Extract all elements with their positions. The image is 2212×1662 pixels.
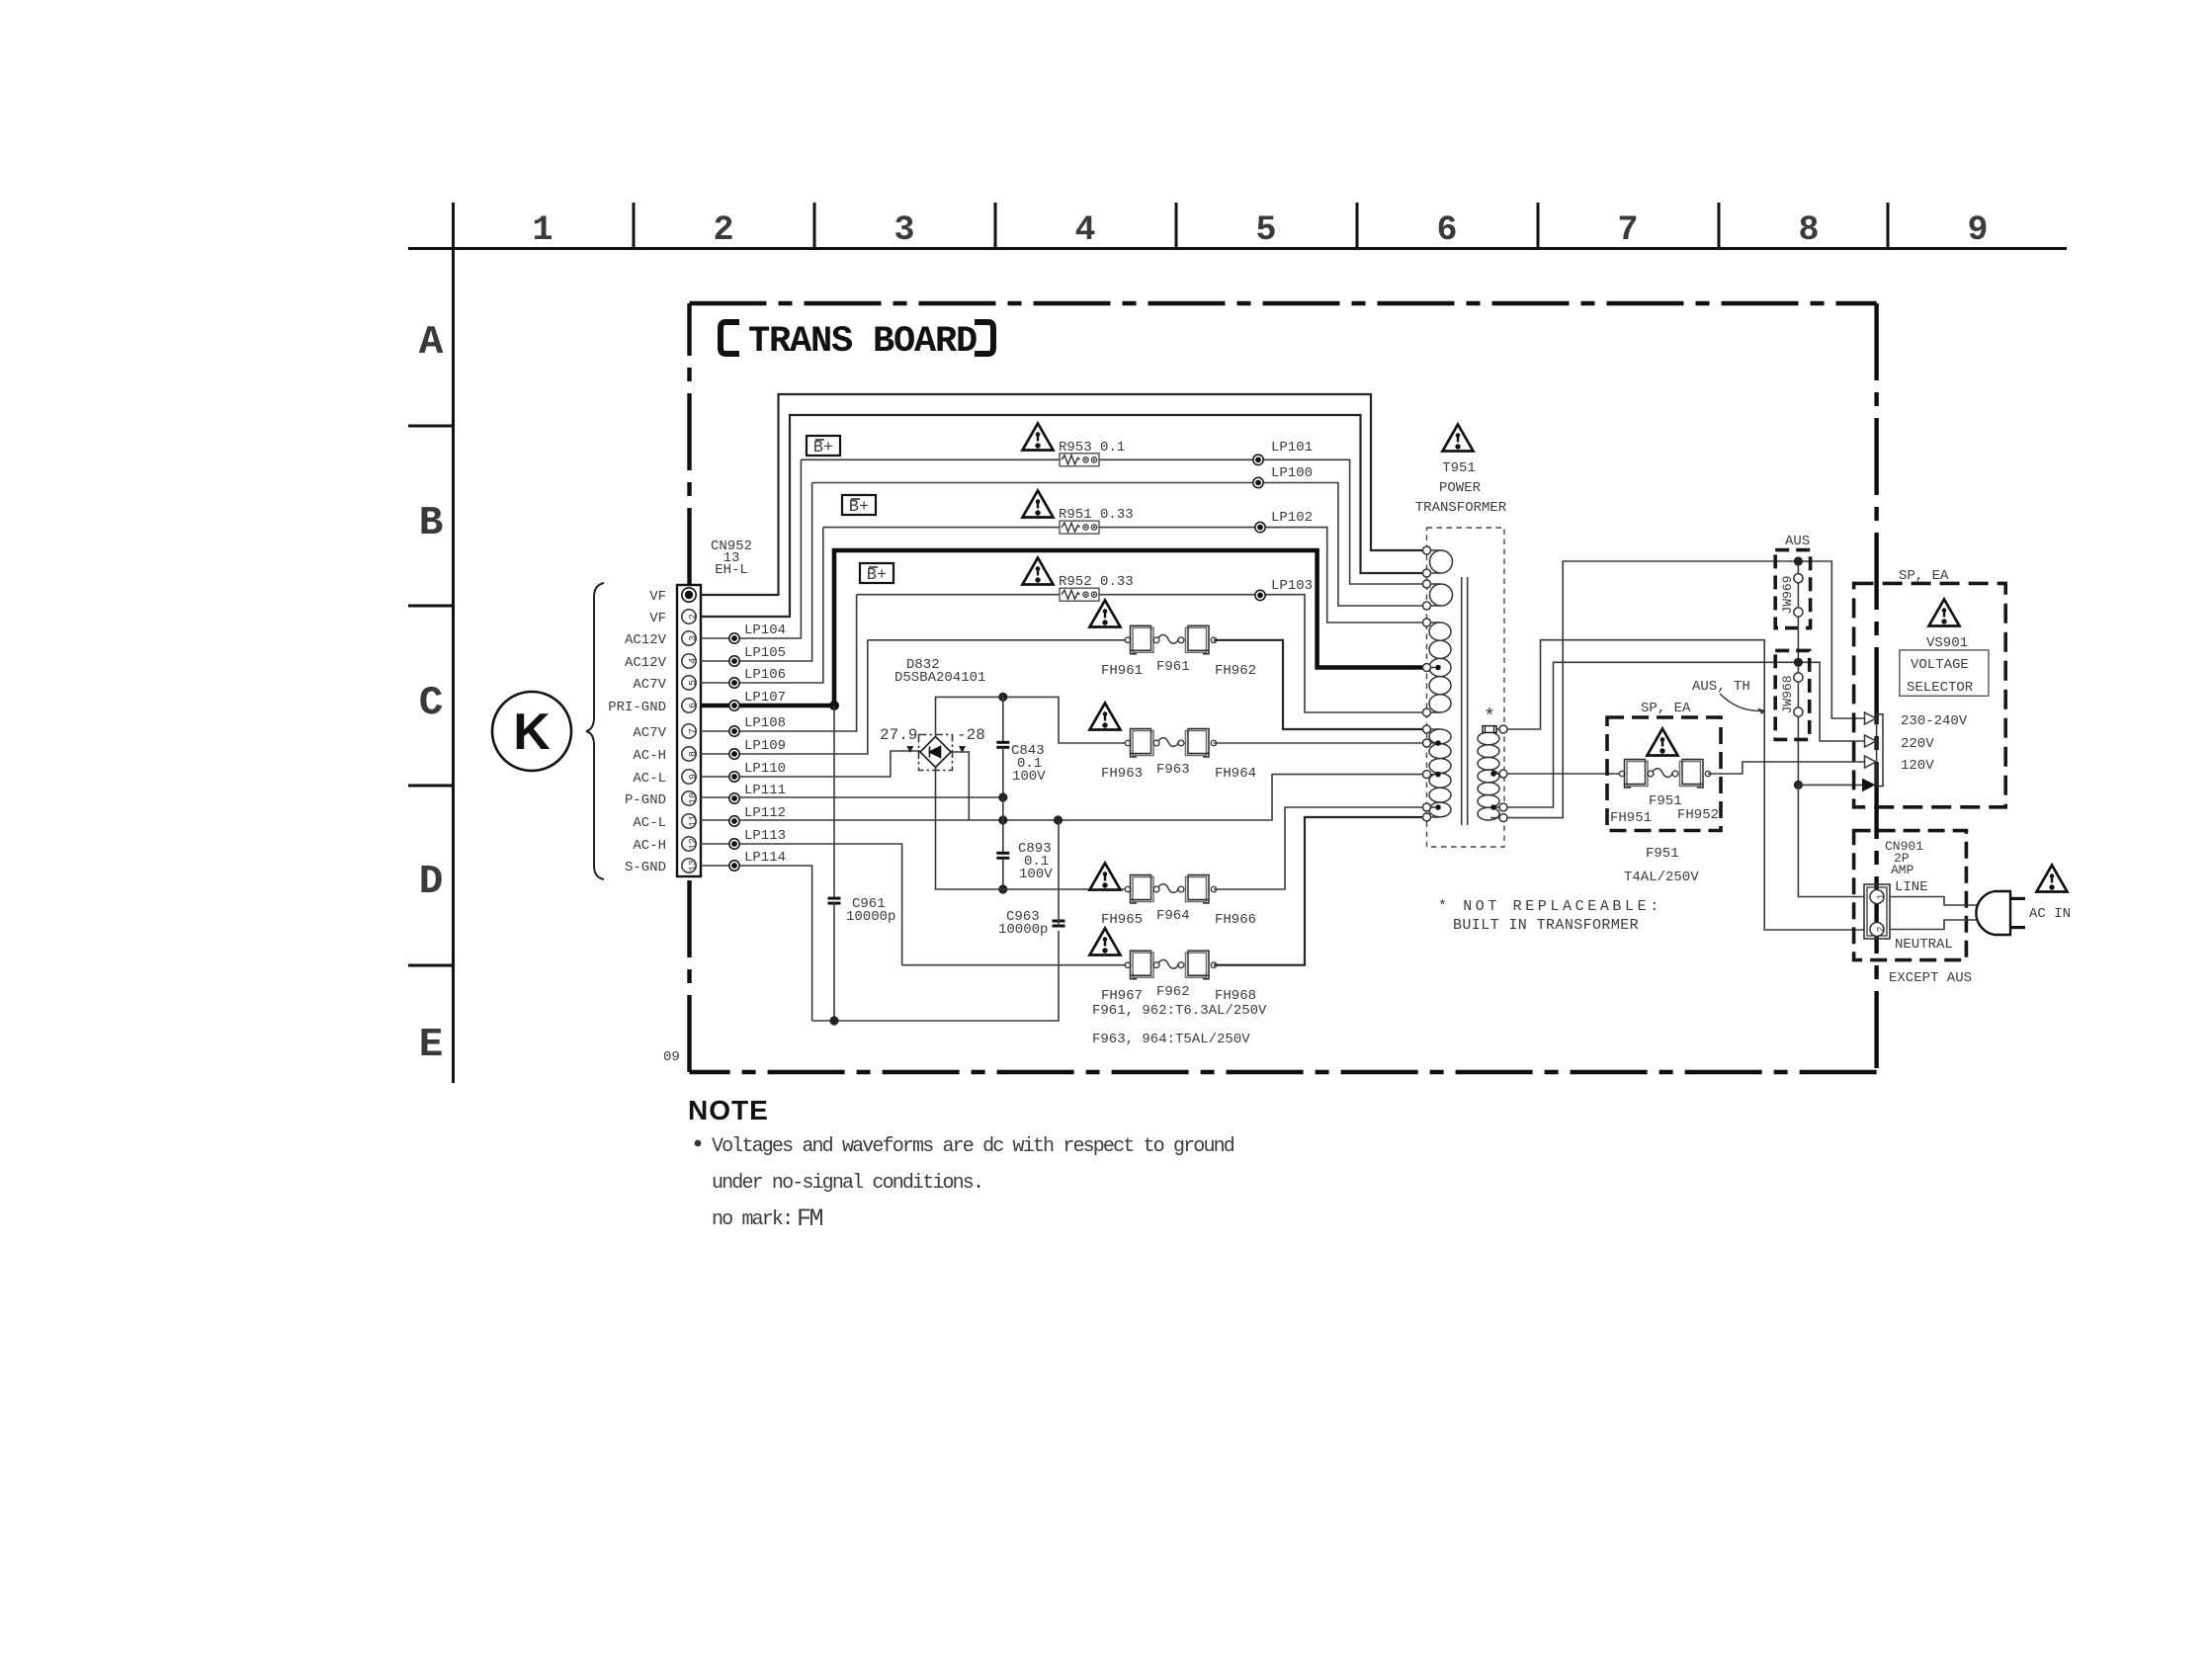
fuse F961 with holders FH961 FH962 [1101, 625, 1256, 679]
top ruler ticks [634, 203, 1888, 248]
svg-text:09: 09 [663, 1049, 680, 1065]
NOTE heading [688, 1095, 769, 1125]
svg-text:1: 1 [1877, 893, 1888, 899]
connector CN901 body [1864, 884, 1890, 939]
svg-text:F964: F964 [1156, 908, 1190, 924]
svg-text:13: 13 [689, 860, 700, 872]
svg-text:SP, EA: SP, EA [1641, 701, 1691, 716]
svg-text:FH968: FH968 [1215, 988, 1256, 1004]
left ruler vertical line [452, 203, 455, 1083]
node LP107 [729, 690, 786, 710]
top ruler line [408, 247, 2067, 250]
svg-text:LP114: LP114 [744, 850, 786, 866]
junction JW968 top [1794, 658, 1803, 667]
connector CN952 label [711, 539, 752, 578]
svg-text:POWER: POWER [1439, 480, 1482, 496]
svg-text:AC-H: AC-H [633, 748, 666, 764]
wire pin4 AC12V / LP105 riser [701, 483, 812, 662]
svg-text:R953 0.1: R953 0.1 [1059, 440, 1125, 456]
node LP109 [729, 738, 786, 759]
node LP102 [1255, 510, 1313, 533]
F951 rating label [1624, 846, 1699, 885]
svg-text:under no-signal conditions.: under no-signal conditions. [712, 1172, 982, 1195]
svg-text:-28: -28 [957, 726, 985, 744]
jumper JW969 [1780, 574, 1803, 618]
svg-text:E: E [419, 1023, 444, 1068]
svg-text:AMP: AMP [1891, 863, 1914, 877]
svg-text:10000p: 10000p [998, 922, 1048, 938]
svg-text:Voltages and waveforms are dc: Voltages and waveforms are dc with respe… [712, 1135, 1234, 1158]
svg-text:AC-L: AC-L [633, 771, 666, 787]
svg-text:F961: F961 [1156, 659, 1190, 675]
svg-text:LP105: LP105 [744, 645, 786, 661]
svg-text:FH962: FH962 [1215, 663, 1256, 679]
wire CN901 pin1 to plug [1890, 897, 1981, 906]
svg-text:SELECTOR: SELECTOR [1907, 680, 1974, 696]
svg-text:100V: 100V [1012, 769, 1046, 785]
node LP106 [729, 667, 786, 688]
svg-text:11: 11 [689, 815, 700, 827]
svg-text:P-GND: P-GND [625, 792, 666, 808]
09 page mark [663, 1049, 680, 1065]
T951 primary coil 3 (7V-0-7V) [1427, 623, 1452, 712]
svg-text:FH961: FH961 [1101, 663, 1143, 679]
warning triangle F962 [1090, 929, 1121, 956]
svg-text:FH952: FH952 [1677, 807, 1719, 823]
wire pin12 AC-H / LP113 to F962 row [701, 844, 902, 965]
junction selector common [1794, 781, 1803, 789]
jumper JW968 [1780, 673, 1803, 716]
svg-text:AC12V: AC12V [625, 655, 667, 671]
node LP111 [729, 783, 786, 803]
wire FH964 to coil4 pin [1214, 742, 1424, 744]
wire pin1 VF to T951 coil1 top [701, 394, 1424, 595]
wire F961 row from LP109 riser [868, 639, 1128, 641]
fuse F964 with holders FH965 FH966 [1101, 875, 1256, 929]
svg-text:F962: F962 [1156, 984, 1190, 1000]
svg-text:no mark:: no mark: [712, 1208, 792, 1231]
wire pin10 P-GND to C843/C893 junction [701, 796, 1003, 798]
node LP110 [729, 761, 786, 782]
svg-text:9: 9 [689, 774, 700, 780]
wire pin11 AC-L / LP112 to T951 coil4 tap [701, 775, 1424, 820]
svg-text:LP103: LP103 [1271, 578, 1313, 594]
svg-text:S-GND: S-GND [625, 860, 666, 875]
svg-text:7: 7 [1617, 210, 1638, 250]
svg-text:AUS, TH: AUS, TH [1692, 679, 1750, 695]
svg-text:JW969: JW969 [1780, 575, 1795, 614]
svg-text:BUILT IN TRANSFORMER: BUILT IN TRANSFORMER [1453, 917, 1639, 934]
svg-text:R951 0.33: R951 0.33 [1059, 507, 1134, 523]
svg-text:LP113: LP113 [744, 828, 786, 844]
svg-text:LP102: LP102 [1271, 510, 1313, 526]
warning triangle R951 [1023, 491, 1054, 518]
resistor R951 0.33 [823, 507, 1424, 623]
B+ flag 2 [842, 495, 876, 517]
svg-text:LP104: LP104 [744, 623, 786, 638]
left ruler ticks [408, 426, 453, 965]
svg-text:9: 9 [1967, 210, 1988, 250]
B+ flag 3 [860, 563, 893, 585]
VOLTAGE SELECTOR label box [1900, 650, 1989, 696]
wire pin13 S-GND / LP114 to ground rail [701, 866, 812, 1021]
svg-text:F963, 964:T5AL/250V: F963, 964:T5AL/250V [1092, 1032, 1250, 1047]
node LP100 [1253, 465, 1313, 488]
warning triangle AC IN [2037, 866, 2068, 892]
svg-text:PRI-GND: PRI-GND [608, 700, 666, 715]
svg-text:LP100: LP100 [1271, 465, 1313, 481]
fuse F963 with holders FH963 FH964 [1101, 729, 1256, 783]
svg-text:6: 6 [1436, 210, 1457, 250]
svg-text:FM: FM [797, 1205, 823, 1233]
T951 secondary tap dots [1490, 771, 1496, 810]
jumper JW968 dashed box [1775, 650, 1810, 739]
svg-text:D5SBA204101: D5SBA204101 [894, 670, 985, 686]
T951 primary pins [1423, 546, 1431, 821]
SP,EA label selector [1899, 568, 1949, 584]
svg-text:T951: T951 [1442, 460, 1476, 476]
T951 primary coil 1 (VF) [1427, 550, 1453, 573]
CN952 pin name labels [608, 589, 666, 875]
svg-text:LP110: LP110 [744, 761, 786, 777]
svg-text:D: D [419, 860, 444, 905]
svg-text:5: 5 [689, 680, 700, 686]
AUS, TH callout [1692, 679, 1765, 714]
svg-text:LP106: LP106 [744, 667, 786, 683]
wire pin6 PRI-GND thick to T951 center tap [701, 550, 1424, 706]
voltage selector dashed box [1854, 583, 2006, 806]
svg-text:AC-H: AC-H [633, 838, 666, 854]
wire secondary * pin to CN901 NEUTRAL [1507, 640, 1864, 930]
CN901 pin 1 [1870, 890, 1888, 904]
connector CN952 body [677, 585, 701, 876]
AUS label [1785, 534, 1810, 549]
junction C893 bottom [998, 884, 1007, 893]
svg-text:120V: 120V [1901, 758, 1934, 774]
svg-text:12: 12 [689, 838, 700, 850]
wire pin2 VF to T951 coil1 bottom [701, 415, 1424, 617]
svg-text:LP107: LP107 [744, 690, 786, 706]
junctions AC-L row [998, 815, 1063, 824]
warning triangle F963 [1090, 704, 1121, 730]
svg-text:* NOT REPLACEABLE:: * NOT REPLACEABLE: [1438, 898, 1662, 915]
CN901 pin 2 [1870, 923, 1888, 937]
svg-text:4: 4 [689, 658, 700, 664]
svg-text:LINE: LINE [1895, 879, 1928, 895]
node LP112 [729, 805, 786, 826]
node LP113 [729, 828, 786, 849]
wire pin7 AC7V / LP108 riser [701, 595, 857, 731]
svg-text:VOLTAGE: VOLTAGE [1911, 657, 1969, 673]
selector contact bar [1877, 714, 1883, 787]
svg-text:100V: 100V [1019, 867, 1053, 882]
wire LP100 row to coil2 bottom [812, 483, 1424, 607]
svg-text:TRANS BOARD: TRANS BOARD [748, 321, 977, 363]
svg-text:1: 1 [532, 210, 553, 250]
svg-text:7: 7 [689, 728, 700, 734]
svg-text:8: 8 [1798, 210, 1819, 250]
svg-text:VS901: VS901 [1926, 635, 1968, 651]
resistor R953 0.1 [801, 440, 1424, 584]
transformer T951 label [1415, 425, 1507, 517]
CN952 pins 2-13 circled numbers [682, 610, 696, 873]
svg-text:*: * [1484, 706, 1495, 729]
voltage label -28 with probe arrow [957, 726, 985, 753]
wire CN901 pin2 to plug [1890, 920, 1983, 930]
svg-text:VF: VF [649, 611, 666, 626]
capacitor C963 [998, 820, 1065, 938]
resistor R952 0.33 [857, 574, 1424, 712]
selector arrow 120V [1865, 756, 1935, 774]
fuse table note [1092, 1003, 1267, 1047]
wire pin9 AC-L / LP110 to bridge input [701, 751, 920, 777]
svg-text:EXCEPT AUS: EXCEPT AUS [1889, 970, 1972, 986]
T951 secondary coil [1478, 729, 1499, 820]
svg-text:SP, EA: SP, EA [1899, 568, 1949, 584]
fuse F962 with holders FH967 FH968 [1101, 951, 1256, 1004]
VS901 label [1926, 635, 1968, 651]
svg-text:EH-L: EH-L [715, 562, 748, 578]
warning triangle F961 [1090, 601, 1121, 627]
node LP105 [729, 645, 786, 666]
svg-text:F961, 962:T6.3AL/250V: F961, 962:T6.3AL/250V [1092, 1003, 1267, 1019]
wire bridge - output down to AC-L row [951, 752, 969, 820]
svg-text:AC IN: AC IN [2029, 906, 2071, 922]
note text line 2 [712, 1172, 982, 1195]
node LP104 [729, 623, 786, 643]
node LP108 [729, 715, 786, 736]
svg-text:LP109: LP109 [744, 738, 786, 754]
svg-text:4: 4 [1074, 210, 1095, 250]
jumper JW969 dashed box [1775, 550, 1810, 628]
warning triangle VS901 [1929, 600, 1960, 626]
CN901 dashed box EXCEPT AUS [1854, 831, 1972, 986]
row letters A-E [419, 320, 444, 1068]
capacitor C843 [996, 697, 1046, 797]
svg-text:10: 10 [689, 792, 700, 804]
svg-text:LP108: LP108 [744, 715, 786, 731]
svg-text:JW968: JW968 [1780, 675, 1795, 713]
svg-text:27.9: 27.9 [880, 726, 917, 744]
svg-text:R952 0.33: R952 0.33 [1059, 574, 1134, 590]
svg-text:B+: B+ [849, 498, 869, 517]
warning triangle F964 [1090, 864, 1121, 890]
svg-text:AC-L: AC-L [633, 815, 666, 831]
wire FH968 to coil4 bottom [1214, 817, 1424, 965]
svg-text:FH963: FH963 [1101, 766, 1143, 782]
wire jumper chain down to CN901 LINE [1798, 785, 1864, 896]
note text line 1 [712, 1135, 1234, 1158]
TRANS BOARD dash-dot border box [690, 303, 1877, 1072]
svg-text:B+: B+ [867, 566, 887, 585]
svg-text:FH966: FH966 [1215, 912, 1256, 928]
T951 primary coil 4 [1427, 729, 1452, 817]
svg-text:FH964: FH964 [1215, 766, 1256, 782]
brace grouping connector labels [586, 583, 604, 879]
svg-text:B+: B+ [813, 439, 833, 457]
junction C961 bottom [829, 1016, 838, 1025]
T951 core [1462, 577, 1468, 825]
wire FH952 to selector 120V [1708, 762, 1864, 774]
svg-text:VF: VF [649, 589, 666, 605]
svg-text:AUS: AUS [1785, 534, 1810, 549]
svg-text:LP111: LP111 [744, 783, 786, 798]
AC IN label [2029, 906, 2071, 922]
junction P-GND row [998, 792, 1007, 801]
wire jumper chain to selector common (filled arrow) [1798, 779, 1875, 792]
selector arrow 230-240V [1865, 712, 1968, 729]
CN952 pin 1 (filled) [682, 588, 696, 602]
node LP103 [1255, 578, 1313, 601]
voltage label 27.9 with probe arrow [880, 726, 917, 753]
selector arrow 220V [1865, 735, 1935, 752]
svg-text:3: 3 [893, 210, 914, 250]
title TRANS BOARD with lenticular brackets [721, 321, 993, 363]
svg-text:AC7V: AC7V [633, 725, 666, 741]
note text line 3 [712, 1205, 823, 1233]
warning triangle F951 [1648, 729, 1678, 756]
svg-text:3: 3 [689, 635, 700, 641]
wire bridge bottom to F964 row [936, 768, 1129, 890]
wire secondary 817 pin to selector 220V [1507, 662, 1864, 807]
svg-text:AC12V: AC12V [625, 632, 667, 648]
junction PRI-GND / C961 [829, 701, 839, 710]
svg-text:2: 2 [713, 210, 733, 250]
capacitor C961 [828, 706, 896, 1021]
K circle flag [492, 692, 571, 771]
jumper chain vertical [1797, 561, 1799, 785]
wire FH962 to coil4 top [1214, 640, 1424, 729]
fuse F951 with holders FH951 FH952 [1610, 760, 1719, 827]
wire F962 row from LP113 riser [902, 964, 1128, 966]
note * not replaceable [1438, 898, 1662, 934]
capacitor C893 [996, 797, 1053, 889]
node LP101 [1253, 440, 1313, 464]
svg-text:5: 5 [1255, 210, 1276, 250]
T951 secondary pins [1499, 725, 1507, 822]
ground rail S-GND [812, 931, 1059, 1021]
svg-text:FH965: FH965 [1101, 912, 1143, 928]
svg-text:LP112: LP112 [744, 805, 786, 821]
svg-text:NOTE: NOTE [688, 1095, 769, 1125]
svg-text:2: 2 [689, 614, 700, 620]
svg-text:A: A [419, 320, 444, 366]
fusible link * not replaceable [1483, 706, 1496, 732]
svg-text:FH967: FH967 [1101, 988, 1143, 1004]
svg-text:T4AL/250V: T4AL/250V [1624, 870, 1699, 885]
svg-text:B: B [419, 501, 444, 546]
svg-text:K: K [513, 704, 551, 761]
warning triangle R953 [1023, 424, 1054, 451]
svg-text:10000p: 10000p [846, 909, 895, 925]
wire bridge + output to C843 rail [936, 697, 1129, 743]
svg-text:220V: 220V [1901, 736, 1934, 752]
note bullet [695, 1140, 702, 1147]
wire pin5 AC7V / LP106 riser [701, 528, 823, 683]
B+ flag 1 [807, 436, 840, 457]
svg-text:F951: F951 [1646, 846, 1679, 862]
svg-text:TRANSFORMER: TRANSFORMER [1415, 500, 1507, 516]
AC plug [1976, 891, 2025, 935]
svg-text:2: 2 [1877, 926, 1888, 932]
svg-text:F963: F963 [1156, 762, 1190, 778]
svg-text:230-240V: 230-240V [1901, 713, 1968, 729]
T951 primary winding tap dots [1435, 665, 1441, 810]
bridge rectifier D832 [894, 657, 985, 771]
junction C843 top [998, 693, 1007, 702]
node LP114 [729, 850, 786, 871]
svg-text:6: 6 [689, 703, 700, 708]
connector CN901 labels [1885, 839, 1953, 953]
column numbers 1-9 [532, 210, 1988, 250]
svg-text:8: 8 [689, 751, 700, 757]
T951 primary coil 2 [1427, 584, 1453, 606]
svg-text:NEUTRAL: NEUTRAL [1895, 937, 1953, 953]
wire pin3 AC12V / LP104 riser [701, 459, 801, 638]
svg-text:FH951: FH951 [1610, 810, 1652, 826]
transformer T951 dashed outline [1427, 528, 1505, 847]
svg-text:C: C [419, 681, 444, 726]
wire FH966 to coil4 tap2 [1214, 807, 1424, 889]
svg-text:AC7V: AC7V [633, 677, 666, 693]
wire secondary 827 pin to selector 230-240V [1507, 561, 1864, 818]
SP,EA dashed box around F951 [1607, 701, 1721, 831]
svg-text:LP101: LP101 [1271, 440, 1313, 456]
wire pin8 AC-H / LP109 riser to F961 row [701, 640, 868, 754]
junction AUS top [1794, 556, 1803, 565]
warning triangle R952 [1023, 558, 1054, 585]
wire secondary 783 pin to F951 [1507, 773, 1622, 775]
